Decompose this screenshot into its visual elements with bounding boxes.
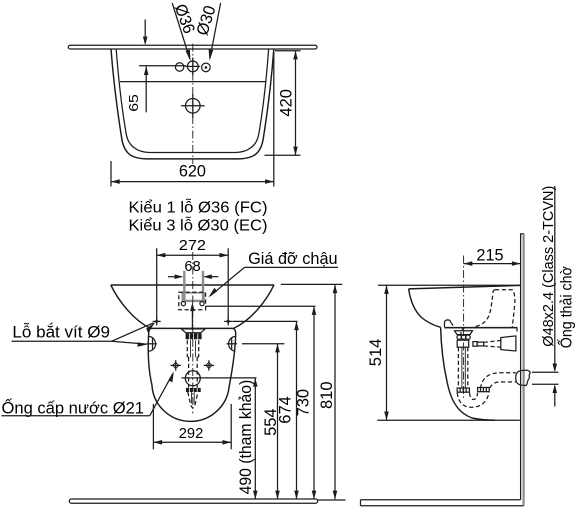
svg-text:272: 272: [179, 237, 206, 254]
svg-text:292: 292: [179, 425, 204, 442]
svg-text:Lỗ bắt vít Ø9: Lỗ bắt vít Ø9: [12, 323, 110, 342]
svg-text:674: 674: [277, 396, 295, 424]
svg-text:Ống thải chờ: Ống thải chờ: [555, 266, 575, 348]
svg-text:Giá đỡ chậu: Giá đỡ chậu: [248, 250, 338, 268]
svg-text:810: 810: [318, 382, 336, 410]
svg-text:620: 620: [179, 163, 206, 181]
svg-text:514: 514: [367, 339, 385, 367]
svg-text:Kiểu 3 lỗ Ø30 (EC): Kiểu 3 lỗ Ø30 (EC): [129, 218, 268, 235]
svg-text:490 (tham khảo): 490 (tham khảo): [237, 380, 255, 495]
svg-text:Ống cấp nước Ø21: Ống cấp nước Ø21: [2, 398, 145, 418]
svg-text:65: 65: [126, 94, 141, 112]
svg-text:215: 215: [476, 246, 503, 264]
svg-text:Kiểu 1 lỗ Ø36 (FC): Kiểu 1 lỗ Ø36 (FC): [129, 200, 268, 217]
svg-text:730: 730: [295, 389, 313, 417]
svg-text:420: 420: [277, 89, 295, 117]
